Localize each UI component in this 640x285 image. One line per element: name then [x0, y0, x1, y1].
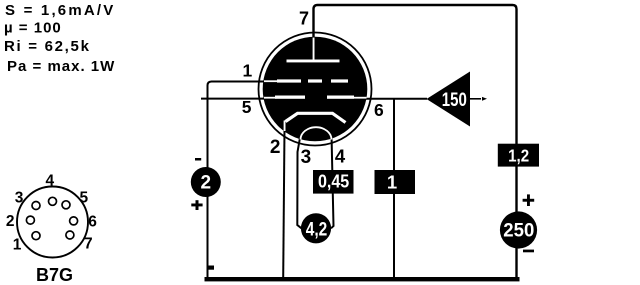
- svg-text:7: 7: [299, 8, 309, 28]
- B7G pin hole 7: [66, 231, 74, 239]
- battery 250V polarity -: [523, 250, 534, 253]
- svg-text:2: 2: [6, 213, 15, 230]
- svg-text:3: 3: [301, 147, 312, 168]
- current label 0,45 (box on pin4 wire): [313, 170, 354, 194]
- wire pin7 anode to top rail and HT rail down right side: [314, 5, 517, 277]
- pin label 4: [335, 145, 346, 166]
- spec label S=1,6mA/V: [5, 2, 116, 19]
- svg-text:Ri = 62,5k: Ri = 62,5k: [4, 38, 91, 55]
- B7G label 1: [13, 237, 22, 254]
- svg-text:S = 1,6mA/V: S = 1,6mA/V: [5, 2, 116, 19]
- anode lead to pin 7 (white): [313, 38, 315, 61]
- grid g3 dashed row (pin 1): [264, 79, 348, 82]
- cathode lead to pin 2 (white): [284, 121, 286, 132]
- svg-text:µ = 100: µ = 100: [4, 19, 62, 36]
- spec label Ri=62,5k: [4, 38, 91, 55]
- B7G label 4: [45, 172, 54, 189]
- battery 250V polarity +: [523, 194, 535, 206]
- grid bias battery 2V: [191, 167, 221, 197]
- svg-text:B7G: B7G: [36, 265, 73, 285]
- wire pin6 to anode arrow: [364, 98, 427, 100]
- current label 1,2 (box on HT rail): [498, 144, 539, 167]
- heater f (white arc): [301, 127, 332, 139]
- B7G label 2: [6, 213, 15, 230]
- B7G pin hole 2: [26, 216, 34, 224]
- anode voltage triangle 150: [427, 72, 471, 127]
- B7G caption: [36, 265, 73, 285]
- grid bias battery polarity -: [195, 158, 201, 161]
- svg-text:0,45: 0,45: [318, 172, 349, 192]
- svg-text:5: 5: [242, 97, 252, 117]
- ground bus (bottom thick line): [205, 277, 520, 281]
- svg-text:4,2: 4,2: [306, 219, 328, 240]
- grid bias battery polarity +: [191, 200, 202, 210]
- svg-text:7: 7: [84, 236, 93, 253]
- battery 250V: [500, 211, 537, 248]
- pin label 1: [243, 61, 253, 81]
- tube V1 envelope: [259, 33, 372, 146]
- B7G label 5: [79, 189, 88, 206]
- svg-text:2: 2: [270, 137, 281, 158]
- current label 1 (box on branch): [375, 170, 416, 194]
- pin label 6: [374, 100, 384, 120]
- spec label mu=100: [4, 19, 62, 36]
- B7G base outline circle: [17, 187, 88, 258]
- B7G pin hole 6: [70, 217, 78, 225]
- svg-text:1,2: 1,2: [508, 145, 529, 165]
- wire pin1 grid to left branch down to bus: [208, 82, 266, 278]
- cathode k (white hat shape): [286, 113, 346, 122]
- B7G label 6: [88, 214, 97, 231]
- B7G pin hole 4: [49, 197, 57, 205]
- wire pin2 cathode down to bus: [283, 128, 284, 277]
- B7G label 3: [15, 190, 24, 207]
- B7G pin hole 1: [32, 232, 40, 240]
- wire branch at x392 down to bus: [393, 99, 395, 277]
- wire pin4 heater down to battery 4,2: [331, 134, 334, 228]
- svg-text:2: 2: [201, 173, 212, 194]
- pin label 5: [242, 97, 252, 117]
- svg-text:1: 1: [13, 237, 22, 254]
- svg-text:1: 1: [243, 61, 253, 81]
- pin label 7: [299, 8, 309, 28]
- svg-text:1: 1: [387, 171, 397, 192]
- wire stub with arrow after anode triangle: [470, 97, 487, 101]
- grid g1/g2 dashed row (pins 5 and 6): [264, 96, 367, 99]
- B7G label 7: [84, 236, 93, 253]
- svg-text:150: 150: [442, 90, 467, 111]
- B7G pin hole 5: [62, 201, 70, 209]
- anode plate (white bar): [287, 60, 340, 63]
- svg-text:Pa = max. 1W: Pa = max. 1W: [7, 58, 115, 75]
- pin label 3: [301, 147, 312, 168]
- svg-text:4: 4: [335, 145, 346, 166]
- wire pin3 heater down to battery 4,2: [297, 136, 301, 228]
- svg-text:250: 250: [503, 221, 534, 242]
- svg-text:6: 6: [374, 100, 384, 120]
- svg-text:5: 5: [79, 189, 88, 206]
- svg-text:4: 4: [45, 172, 54, 189]
- junction smudge on left branch: [207, 266, 215, 270]
- svg-text:3: 3: [15, 190, 24, 207]
- pin label 2: [270, 137, 281, 158]
- svg-text:6: 6: [88, 214, 97, 231]
- spec label Pa=max.1W: [7, 58, 115, 75]
- B7G pin hole 3: [32, 202, 40, 210]
- wire pin5 stub: [201, 98, 264, 100]
- heater battery 4,2V: [301, 213, 331, 243]
